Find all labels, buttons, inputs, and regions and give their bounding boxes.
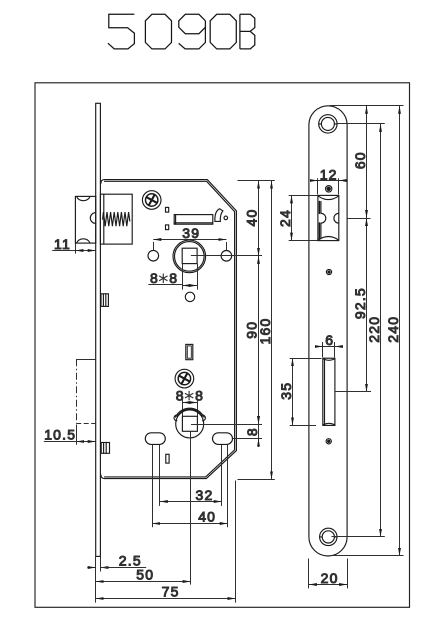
dimension 60 [352, 106, 368, 218]
spindle center leader line [191, 255, 262, 257]
fixing post right (stadium) [213, 433, 233, 445]
screw boss U1 (top) [142, 191, 161, 210]
dimension 8*8 (lower hub) [176, 387, 204, 416]
rectangular slot hole [174, 215, 213, 225]
svg-text:75: 75 [162, 584, 180, 600]
plate bottom screw hole [320, 528, 337, 545]
faceplate side view [96, 103, 101, 556]
svg-text:32: 32 [196, 487, 214, 503]
dimension 75 (case depth) [96, 481, 236, 603]
faceplate tab lower (hatched) [101, 443, 109, 454]
dimension 40 (posts) [152, 509, 228, 525]
small square holes [166, 207, 169, 229]
right side extension lines (case) [233, 181, 275, 480]
dimension 10.5 (cylinder protrusion) [44, 425, 96, 445]
latch bolt (protruding) [75, 196, 95, 243]
dimension 32 [160, 487, 222, 503]
dimension 11 (latch protrusion) [52, 236, 95, 254]
svg-text:8: 8 [244, 427, 260, 436]
latch housing inside case [100, 194, 132, 244]
svg-text:220: 220 [366, 316, 382, 343]
svg-text:8: 8 [150, 270, 159, 286]
svg-text:6: 6 [325, 332, 334, 348]
handle spindle follower [173, 240, 206, 273]
small bottom rect hole [166, 454, 169, 463]
lock case outline [101, 180, 237, 479]
svg-text:40: 40 [243, 209, 259, 227]
svg-text:20: 20 [321, 570, 339, 586]
centerline backset [190, 431, 192, 584]
striker plate outline [309, 106, 347, 556]
right hole [221, 251, 232, 262]
dimension 6 (bolt slot width) [315, 332, 343, 357]
plate small screw C [326, 439, 331, 444]
dimension 160 (case height) [257, 181, 273, 480]
svg-text:60: 60 [352, 151, 368, 169]
drawing border frame [35, 83, 410, 608]
svg-text:35: 35 [278, 382, 294, 400]
hub leader line [191, 424, 262, 426]
title 5090B [108, 14, 255, 49]
mid slot hole [186, 344, 193, 359]
extension lines under fixing posts [153, 445, 228, 527]
svg-text:40: 40 [198, 509, 216, 525]
svg-text:8: 8 [176, 387, 185, 403]
dimension 240 [385, 106, 401, 556]
dimension 35 (bolt slot height) [278, 358, 322, 425]
svg-text:160: 160 [257, 318, 273, 345]
dimension 2.5 (plate thickness) [87, 553, 146, 603]
plate small screw B [326, 269, 331, 274]
svg-text:50: 50 [136, 567, 154, 583]
dimension 20 (plate width) [309, 559, 348, 589]
svg-text:24: 24 [277, 209, 293, 227]
dimension 39 (hole spacing) [153, 225, 226, 251]
dimension 90 (spindle to hub) [243, 256, 259, 424]
dimension 220 [366, 124, 382, 537]
dimension 8*8 (top spindle) [148, 264, 197, 290]
svg-text:10.5: 10.5 [44, 427, 76, 443]
dimension 12 (latch cutout width) [310, 166, 346, 194]
svg-text:8: 8 [195, 387, 204, 403]
dimension 8 (hub to post) [244, 416, 260, 448]
small pin circle [224, 216, 228, 220]
lower hub (WC follower) [174, 408, 205, 438]
handle cam lever [215, 209, 223, 222]
svg-text:8: 8 [169, 270, 178, 286]
left hole [148, 250, 159, 261]
faceplate tab upper (hatched) [101, 294, 108, 307]
hole below spindle [185, 292, 194, 301]
svg-text:39: 39 [182, 225, 200, 241]
plate top screw hole [319, 115, 337, 133]
deadbolt slot [323, 358, 335, 425]
fixing post left (stadium) [145, 433, 165, 445]
dimension 50 (backset) [96, 567, 191, 583]
svg-text:240: 240 [385, 316, 401, 343]
svg-text:12: 12 [320, 166, 338, 182]
phantom cylinder box (dash-dot) [76, 359, 96, 423]
svg-text:11: 11 [54, 236, 71, 252]
dimension 24 (latch cutout height) [277, 195, 318, 240]
latch spring [103, 212, 130, 226]
plate extension lines [330, 106, 404, 556]
plate small screw A [326, 186, 332, 192]
dimension 40 (top to spindle) [243, 181, 259, 256]
dimension 92.5 [352, 218, 368, 392]
screw boss U2 (lower) [175, 369, 194, 388]
svg-text:92.5: 92.5 [352, 287, 368, 319]
latch cutout [318, 195, 339, 240]
